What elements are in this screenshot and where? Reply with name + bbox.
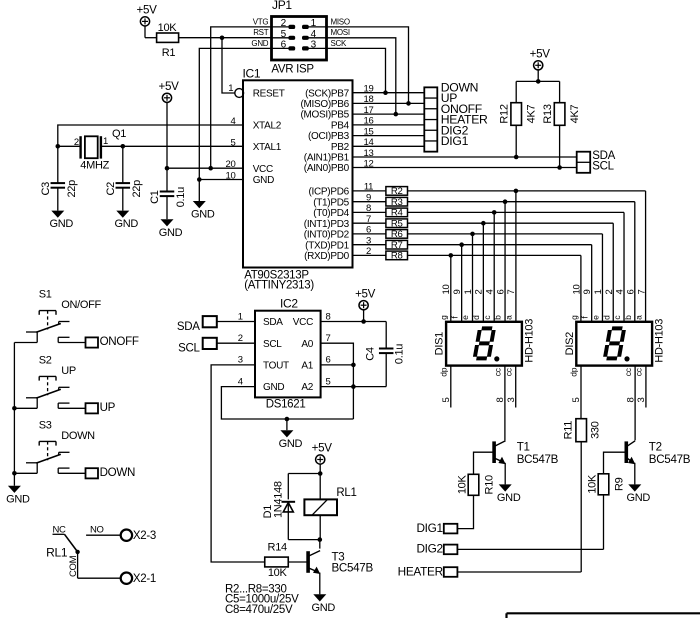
svg-text:GND: GND	[263, 382, 284, 393]
svg-text:DIS2: DIS2	[564, 332, 576, 355]
svg-text:SCL: SCL	[178, 343, 200, 355]
svg-text:R7: R7	[391, 240, 403, 251]
svg-text:C1: C1	[149, 190, 161, 204]
svg-text:9: 9	[452, 290, 463, 295]
svg-text:RL1: RL1	[336, 487, 356, 499]
svg-text:DIS1: DIS1	[434, 332, 446, 355]
svg-text:10K: 10K	[586, 474, 598, 494]
svg-text:R4: R4	[391, 208, 404, 219]
svg-text:1: 1	[463, 290, 474, 295]
svg-text:R2: R2	[391, 186, 403, 197]
svg-text:RESET: RESET	[253, 89, 285, 100]
svg-text:1: 1	[238, 311, 243, 322]
svg-text:(SCK)PB7: (SCK)PB7	[305, 88, 349, 99]
svg-text:GND: GND	[191, 209, 215, 221]
svg-text:(T0)PD4: (T0)PD4	[313, 208, 349, 219]
svg-text:GND: GND	[312, 602, 336, 614]
svg-text:(ICP)PD6: (ICP)PD6	[309, 187, 350, 198]
svg-text:4: 4	[615, 290, 626, 295]
svg-text:HEATER: HEATER	[398, 564, 443, 578]
svg-text:A0: A0	[301, 339, 313, 350]
svg-text:DIG1: DIG1	[441, 134, 469, 148]
svg-text:RST: RST	[253, 28, 269, 37]
svg-text:7: 7	[636, 290, 647, 295]
svg-text:C2: C2	[105, 182, 117, 196]
svg-text:4K7: 4K7	[569, 104, 581, 123]
svg-text:R11: R11	[563, 421, 575, 440]
svg-text:SCK: SCK	[331, 39, 348, 48]
svg-text:cc: cc	[623, 367, 633, 376]
svg-text:e: e	[460, 315, 470, 320]
svg-text:(TXD)PD1: (TXD)PD1	[305, 240, 349, 251]
svg-text:XTAL2: XTAL2	[253, 121, 282, 132]
svg-text:3: 3	[238, 355, 243, 366]
svg-text:330: 330	[589, 421, 601, 439]
svg-text:ON/OFF: ON/OFF	[61, 299, 101, 311]
svg-text:GND: GND	[279, 438, 303, 450]
svg-text:d: d	[471, 315, 481, 320]
svg-text:(MISO)PB6: (MISO)PB6	[300, 99, 349, 110]
svg-text:GND: GND	[115, 218, 139, 230]
svg-text:(MOSI)PB5: (MOSI)PB5	[300, 110, 349, 121]
svg-text:GND: GND	[159, 227, 183, 239]
svg-text:R3: R3	[391, 197, 403, 208]
svg-text:9: 9	[582, 290, 593, 295]
svg-text:TOUT: TOUT	[263, 361, 289, 372]
svg-text:+5V: +5V	[530, 47, 551, 60]
svg-text:0.1u: 0.1u	[393, 344, 405, 364]
svg-text:6: 6	[626, 290, 637, 295]
svg-text:UP: UP	[100, 401, 116, 414]
svg-text:GND: GND	[253, 175, 274, 186]
svg-text:BC547B: BC547B	[517, 453, 559, 466]
svg-text:VCC: VCC	[253, 164, 273, 175]
svg-text:GND: GND	[251, 39, 268, 48]
svg-text:a: a	[504, 315, 514, 320]
svg-text:22p: 22p	[131, 180, 143, 198]
svg-text:4: 4	[484, 290, 495, 295]
svg-text:R6: R6	[391, 229, 403, 240]
svg-text:GND: GND	[627, 492, 651, 504]
svg-text:8: 8	[326, 311, 331, 322]
svg-text:6: 6	[495, 290, 506, 295]
svg-text:AVR ISP: AVR ISP	[271, 64, 314, 76]
svg-text:2: 2	[74, 137, 79, 148]
svg-text:A2: A2	[301, 382, 313, 393]
svg-text:XTAL1: XTAL1	[253, 142, 282, 153]
svg-text:BC547B: BC547B	[649, 453, 691, 466]
svg-text:4MHZ: 4MHZ	[80, 159, 109, 171]
svg-text:R9: R9	[613, 477, 625, 491]
svg-text:HD-H103: HD-H103	[654, 319, 666, 363]
svg-text:1: 1	[103, 136, 108, 147]
svg-text:+5V: +5V	[158, 80, 179, 93]
svg-text:2: 2	[474, 290, 485, 295]
svg-text:ONOFF: ONOFF	[100, 335, 139, 348]
svg-text:BC547B: BC547B	[332, 561, 374, 574]
svg-text:C3: C3	[40, 182, 52, 196]
svg-text:4: 4	[238, 376, 243, 387]
svg-text:R1: R1	[162, 47, 176, 59]
svg-text:S2: S2	[39, 355, 52, 367]
svg-text:DS1621: DS1621	[266, 399, 306, 411]
svg-text:IC1: IC1	[243, 66, 261, 80]
svg-text:1: 1	[228, 83, 233, 94]
svg-text:7: 7	[326, 333, 331, 344]
svg-text:(ATTINY2313): (ATTINY2313)	[244, 280, 314, 292]
svg-text:R13: R13	[542, 104, 554, 123]
svg-text:cc: cc	[493, 367, 503, 376]
svg-text:C8=470u/25V: C8=470u/25V	[225, 604, 293, 616]
svg-text:DIG2: DIG2	[416, 542, 442, 556]
svg-text:10: 10	[441, 285, 452, 295]
svg-text:7: 7	[506, 290, 517, 295]
svg-text:R5: R5	[391, 219, 403, 230]
svg-text:2: 2	[238, 333, 243, 344]
svg-text:X2-1: X2-1	[133, 573, 156, 585]
svg-text:GND: GND	[6, 493, 30, 505]
svg-text:MISO: MISO	[331, 17, 350, 26]
svg-text:+5V: +5V	[312, 442, 333, 455]
svg-text:MOSI: MOSI	[331, 28, 350, 37]
svg-text:R12: R12	[499, 104, 511, 123]
svg-text:6: 6	[326, 355, 331, 366]
svg-text:HD-H103: HD-H103	[523, 319, 535, 363]
svg-text:X2-3: X2-3	[133, 530, 156, 542]
svg-text:DOWN: DOWN	[100, 466, 136, 479]
svg-text:VTG: VTG	[253, 17, 269, 26]
svg-text:1N4148: 1N4148	[273, 481, 285, 518]
svg-text:SDA: SDA	[177, 321, 200, 333]
svg-text:(AIN1)PB1: (AIN1)PB1	[304, 153, 350, 164]
svg-text:R10: R10	[483, 475, 495, 494]
svg-text:S3: S3	[39, 420, 52, 432]
svg-text:SCL: SCL	[592, 161, 614, 173]
svg-text:+5V: +5V	[355, 287, 376, 300]
svg-text:GND: GND	[497, 492, 521, 504]
svg-text:10K: 10K	[158, 22, 178, 34]
svg-text:(T1)PD5: (T1)PD5	[313, 197, 349, 208]
svg-text:(INT0)PD2: (INT0)PD2	[304, 230, 350, 241]
svg-text:dp: dp	[569, 367, 579, 376]
svg-text:10K: 10K	[268, 567, 288, 579]
svg-text:DIG1: DIG1	[416, 521, 442, 535]
svg-text:COM: COM	[68, 555, 79, 577]
svg-text:b: b	[623, 315, 633, 320]
svg-text:e: e	[590, 315, 600, 320]
svg-text:+5V: +5V	[136, 4, 157, 17]
svg-text:2: 2	[604, 290, 615, 295]
svg-text:10: 10	[571, 285, 582, 295]
svg-text:T2: T2	[649, 441, 662, 454]
svg-text:(RXD)PD0: (RXD)PD0	[304, 251, 350, 262]
svg-text:S1: S1	[39, 289, 52, 301]
svg-text:T1: T1	[517, 441, 530, 454]
svg-text:a: a	[634, 315, 644, 320]
svg-text:A1: A1	[301, 361, 313, 372]
svg-text:g: g	[439, 315, 449, 320]
svg-text:IC2: IC2	[280, 297, 298, 311]
svg-text:PB4: PB4	[331, 121, 350, 132]
svg-text:22p: 22p	[66, 180, 78, 198]
svg-text:g: g	[569, 315, 579, 320]
svg-text:R8: R8	[391, 251, 403, 262]
svg-text:JP1: JP1	[272, 0, 292, 12]
svg-text:1: 1	[593, 290, 604, 295]
svg-text:b: b	[493, 315, 503, 320]
svg-text:Q1: Q1	[112, 128, 126, 140]
svg-text:PB2: PB2	[331, 142, 350, 153]
svg-text:SDA: SDA	[263, 317, 283, 328]
svg-text:RL1: RL1	[46, 546, 68, 560]
svg-text:(OCI)PB3: (OCI)PB3	[308, 131, 350, 142]
svg-text:0.1u: 0.1u	[175, 187, 187, 207]
svg-text:dp: dp	[439, 367, 449, 376]
svg-text:UP: UP	[61, 365, 76, 377]
svg-text:R14: R14	[268, 542, 287, 554]
svg-text:4K7: 4K7	[526, 104, 538, 123]
svg-text:VCC: VCC	[293, 317, 313, 328]
svg-text:5: 5	[326, 376, 331, 387]
svg-text:GND: GND	[50, 218, 74, 230]
svg-text:C4: C4	[365, 347, 377, 361]
svg-text:(INT1)PD3: (INT1)PD3	[304, 219, 350, 230]
svg-text:d: d	[601, 315, 611, 320]
svg-text:NO: NO	[90, 525, 104, 536]
svg-text:SCL: SCL	[263, 339, 282, 350]
svg-text:DOWN: DOWN	[61, 430, 95, 442]
svg-text:10K: 10K	[456, 475, 468, 495]
svg-text:(AIN0)PB0: (AIN0)PB0	[304, 163, 350, 174]
